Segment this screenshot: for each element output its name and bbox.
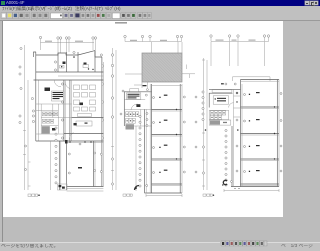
bottom entry <box>135 186 140 191</box>
entry door arcs <box>54 80 73 140</box>
corridor bubbles (main floor) <box>61 83 63 85</box>
right stacked rooms <box>145 84 183 193</box>
porch marks <box>221 83 224 84</box>
legend <box>123 194 126 196</box>
building top wall <box>209 88 241 90</box>
top grid bubbles <box>124 35 126 37</box>
top dimension line <box>41 42 95 44</box>
menu bar <box>0 6 320 13</box>
scattered bubbles <box>122 90 124 92</box>
entry porch <box>142 82 147 88</box>
main stacked rooms <box>231 80 279 187</box>
bottom entry arc <box>223 180 227 184</box>
lower meeting room <box>76 121 92 126</box>
white page <box>3 21 283 218</box>
drawing title text <box>115 22 127 24</box>
stair bottom detail <box>58 184 68 190</box>
top grid bubbles <box>210 35 212 37</box>
legend <box>28 194 31 197</box>
left dimension column <box>203 58 205 190</box>
under-building dim line <box>146 194 182 197</box>
stair block <box>52 91 65 101</box>
left cluster outer box <box>209 93 232 107</box>
title bar <box>0 0 320 6</box>
toolbar <box>0 13 320 20</box>
elevator door arc <box>131 104 138 110</box>
lower corridor <box>231 126 233 187</box>
title text <box>6 0 25 6</box>
annotation mini toolbar <box>220 241 267 247</box>
corridor with bubbles <box>144 109 146 193</box>
small rooms near cluster <box>234 89 241 126</box>
left dimension column <box>112 48 114 190</box>
toolbar button row <box>1 13 151 19</box>
window buttons <box>305 1 309 5</box>
bottom wing corridor <box>50 141 52 190</box>
big room furniture <box>74 85 96 117</box>
left client edge <box>2 21 3 243</box>
right wall bubbles <box>101 65 103 67</box>
under-building dim line <box>224 189 279 192</box>
legend <box>203 194 206 196</box>
left rooms outer box <box>124 92 151 126</box>
interior vertical walls <box>41 104 58 134</box>
main floor top wall <box>34 79 104 81</box>
app icon <box>1 1 5 5</box>
toolbar icon marks <box>2 13 150 17</box>
upper rooms <box>58 51 95 73</box>
left dim extra bubbles <box>202 146 204 148</box>
left dimension column <box>24 45 26 190</box>
stair block <box>127 93 141 100</box>
stair block <box>213 96 228 104</box>
building outline top <box>34 51 102 58</box>
wing room <box>68 153 70 155</box>
status bar <box>0 242 320 251</box>
in-room left bubbles + squares <box>244 94 246 96</box>
lower box with hatch <box>209 120 231 125</box>
toilet rooms <box>36 104 72 134</box>
page number white box <box>112 13 120 19</box>
zoom combo white box <box>51 13 63 19</box>
hatched roof rectangle <box>142 53 182 82</box>
annotation toolbar buttons <box>221 241 267 246</box>
toolbar bottom edge <box>0 20 320 21</box>
toilet box <box>209 110 228 119</box>
dividers <box>124 100 151 127</box>
toilet stalls <box>126 112 129 117</box>
top grid bubbles <box>39 36 41 38</box>
